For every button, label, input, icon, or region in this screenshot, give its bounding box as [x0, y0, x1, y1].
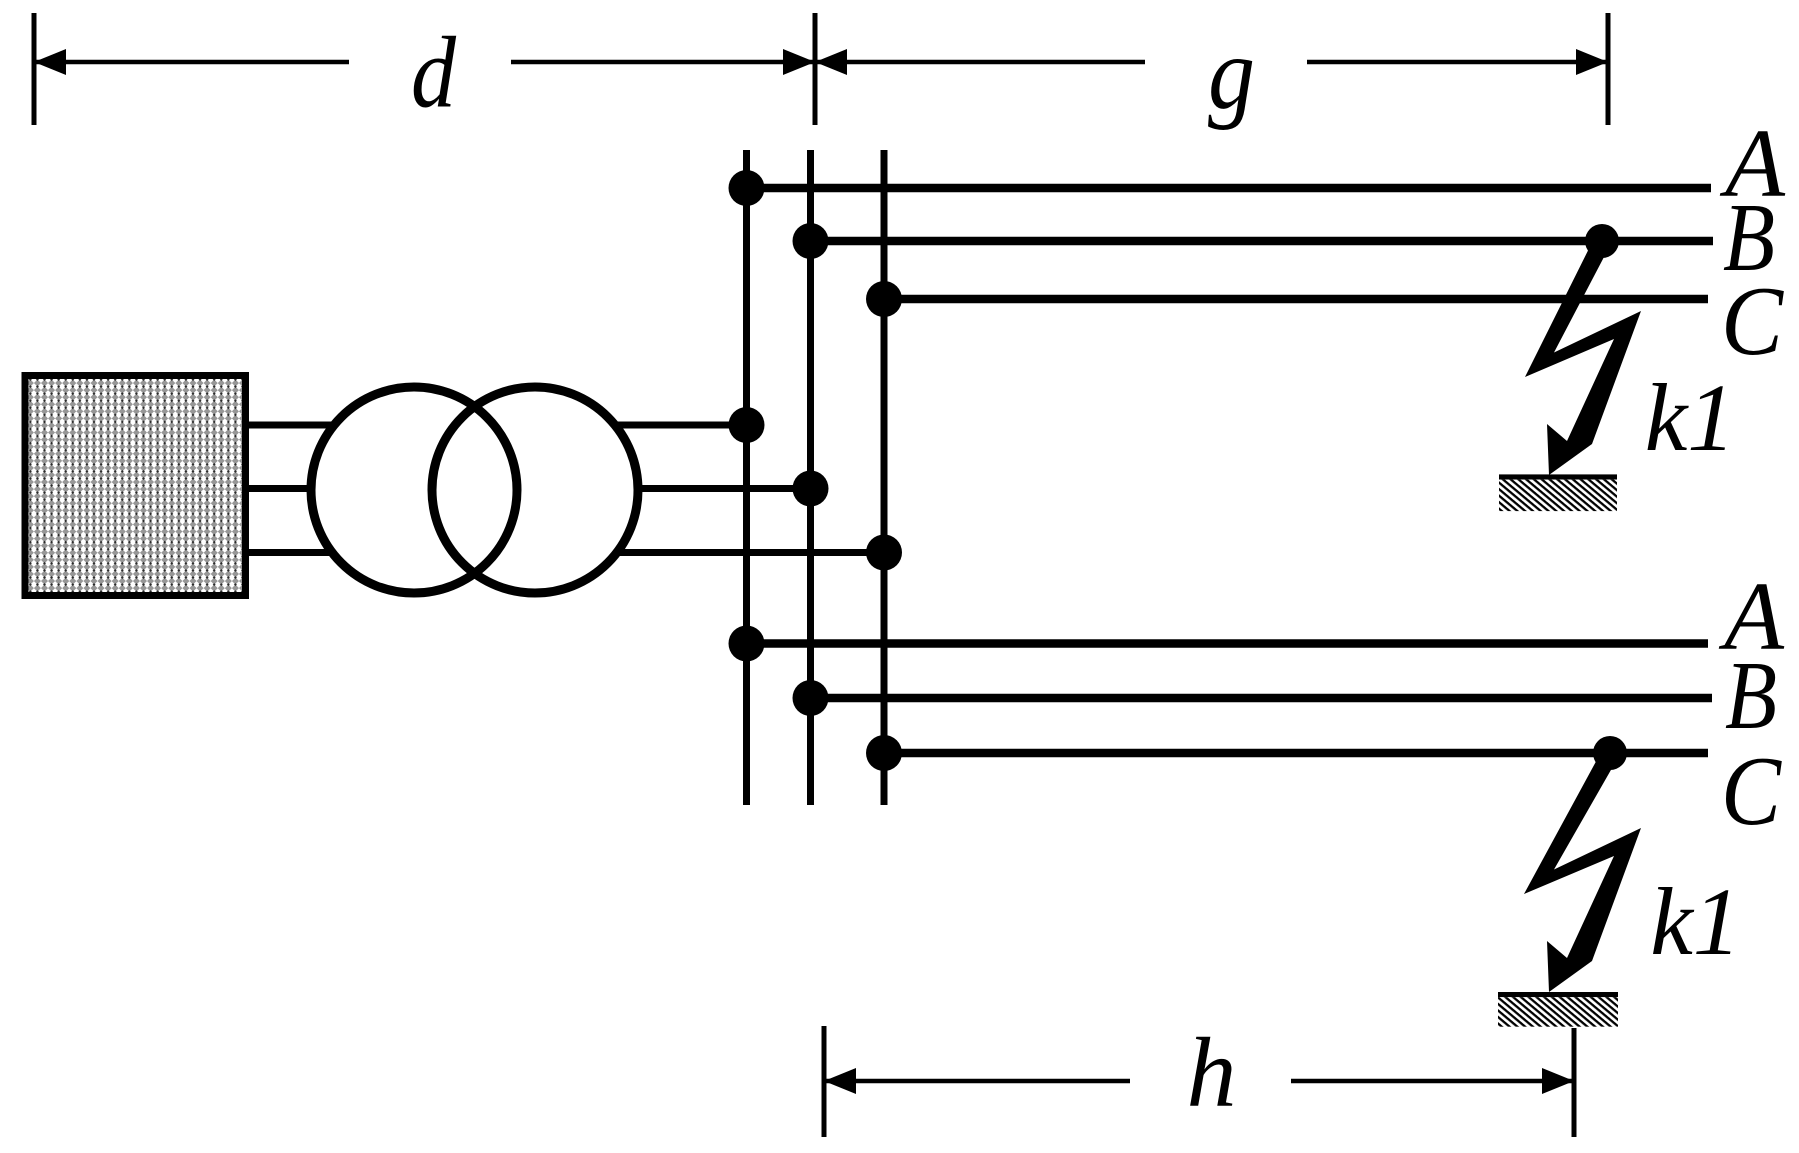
ground hatch top	[1499, 480, 1617, 512]
ground hatch bottom	[1498, 997, 1618, 1026]
fault dot top (on line B)	[1585, 224, 1619, 258]
bottom feeder line C	[884, 749, 1708, 758]
svg-text:k1: k1	[1645, 364, 1736, 471]
bottom feeder line A	[747, 639, 1709, 648]
bus bar 1	[743, 150, 750, 805]
junction dot line A top	[729, 170, 765, 206]
dimension d left tick	[32, 13, 37, 125]
dimension d line right segment	[511, 60, 815, 65]
wire 2 (source to bus 2)	[249, 485, 811, 492]
transformer winding 2 fill	[432, 387, 638, 593]
bottom feeder line B	[811, 694, 1713, 703]
dimension h line right segment	[1291, 1079, 1574, 1084]
dimension g line right segment	[1307, 60, 1608, 65]
transformer winding 1 fill	[311, 387, 517, 593]
bus bar 3	[881, 150, 888, 805]
junction dot line A bottom	[729, 626, 765, 662]
shared center tick	[813, 13, 818, 125]
dimension g left arrowhead	[815, 49, 847, 75]
fault lightning arrow bottom	[1524, 750, 1641, 993]
dimension g right tick	[1606, 13, 1611, 125]
junction dot wire3-bus3	[866, 535, 902, 571]
top feeder line B	[811, 237, 1714, 246]
junction dot line C bottom	[866, 735, 902, 771]
top feeder line A	[747, 184, 1712, 193]
svg-text:k1: k1	[1650, 868, 1741, 975]
svg-text:C: C	[1721, 267, 1784, 376]
dimension h right arrowhead	[1542, 1068, 1574, 1094]
junction dot wire1-bus1	[729, 407, 765, 443]
fault lightning arrow top	[1525, 238, 1641, 476]
dimension g right arrowhead	[1576, 49, 1608, 75]
dimension h line left segment	[824, 1079, 1130, 1084]
svg-text:g: g	[1208, 16, 1255, 131]
svg-text:C: C	[1721, 737, 1782, 846]
transformer winding 2	[432, 387, 638, 593]
ground line top	[1499, 474, 1617, 479]
wire 3 (source to bus 3)	[249, 549, 884, 556]
fault dot bottom (on line C)	[1593, 736, 1627, 770]
source box	[25, 376, 246, 596]
junction dot line C top	[866, 281, 902, 317]
dimension h left arrowhead	[824, 1068, 856, 1094]
dimension g line left segment	[815, 60, 1145, 65]
top feeder line C	[884, 295, 1708, 304]
bus bar 2	[807, 150, 814, 805]
svg-text:B: B	[1725, 642, 1777, 750]
wire 1 (source to bus 1)	[249, 422, 747, 429]
dimension h left tick	[822, 1026, 827, 1137]
dimension h right tick	[1572, 1028, 1577, 1137]
junction dot line B top	[793, 223, 829, 259]
svg-text:h: h	[1187, 1017, 1237, 1128]
transformer winding 1	[311, 387, 517, 593]
junction dot wire2-bus2	[793, 471, 829, 507]
dimension d right arrowhead	[783, 49, 815, 75]
junction dot line B bottom	[793, 680, 829, 716]
dimension d line left segment	[34, 60, 349, 65]
svg-text:d: d	[411, 17, 457, 130]
ground line bottom	[1498, 992, 1618, 997]
dimension d left arrowhead	[34, 49, 66, 75]
